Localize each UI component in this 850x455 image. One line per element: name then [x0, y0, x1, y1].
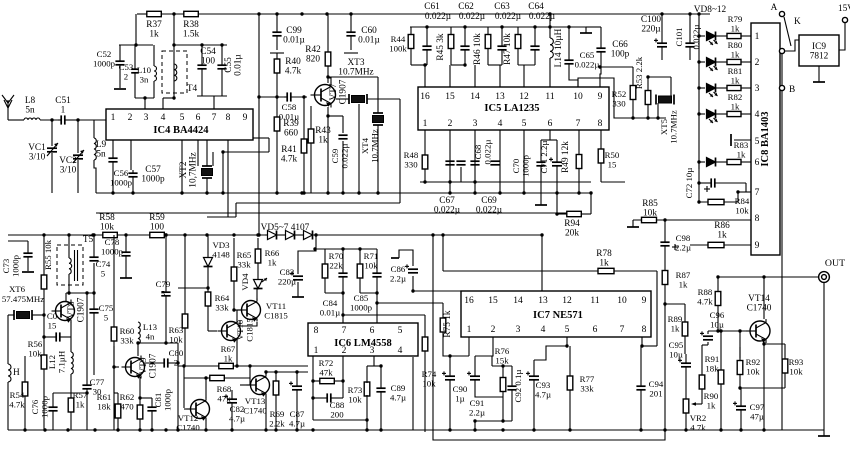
wire long bus	[240, 234, 433, 236]
crystal XT6	[14, 310, 32, 320]
svg-text:L8: L8	[25, 96, 36, 106]
capacitor C66	[596, 27, 605, 66]
resistor R86	[690, 242, 751, 247]
svg-text:4148: 4148	[212, 250, 230, 260]
svg-text:C0: C0	[47, 311, 58, 321]
label R89	[668, 314, 683, 334]
junction	[164, 233, 167, 236]
capacitor C51	[58, 115, 78, 124]
label R68	[217, 384, 232, 404]
junction	[473, 419, 504, 422]
label VC2	[59, 156, 77, 176]
wire bottom jog	[313, 419, 367, 421]
svg-text:5: 5	[565, 325, 570, 335]
svg-text:C79: C79	[156, 279, 171, 289]
svg-text:R67: R67	[221, 344, 236, 354]
switch contact	[779, 48, 784, 53]
svg-text:R83: R83	[734, 140, 749, 150]
resistor R61	[115, 398, 121, 424]
feedback loop wire	[433, 235, 665, 440]
junction	[639, 428, 642, 431]
svg-text:6: 6	[548, 119, 553, 129]
label R40	[285, 57, 302, 77]
capacitor C99	[272, 14, 281, 50]
svg-text:1k: 1k	[268, 258, 277, 268]
svg-text:6: 6	[196, 113, 201, 123]
label R69	[269, 409, 285, 429]
junction	[257, 233, 260, 236]
capacitor C79	[161, 235, 170, 343]
IC8 pin 8	[755, 214, 760, 224]
svg-text:4.7k: 4.7k	[9, 400, 25, 410]
svg-text:OUT: OUT	[825, 258, 845, 269]
svg-text:6: 6	[593, 325, 598, 335]
junction	[67, 291, 95, 294]
wire vt8 e	[70, 322, 72, 337]
label C72	[684, 168, 694, 199]
svg-text:10.7MHz: 10.7MHz	[669, 110, 679, 144]
svg-text:C63: C63	[494, 2, 510, 12]
wire bottom bus right	[700, 429, 824, 431]
junction	[540, 233, 543, 236]
label R85	[642, 199, 658, 219]
wire	[7, 382, 9, 430]
wire	[699, 87, 705, 89]
wire to pin7	[342, 293, 344, 323]
transformer T4 dashed box	[162, 51, 187, 93]
electrolytic C83	[290, 271, 303, 279]
wire	[451, 64, 465, 66]
svg-text:XT2: XT2	[179, 161, 189, 178]
junction	[598, 65, 601, 68]
switch lever K	[784, 17, 801, 46]
wire pin6 down	[549, 130, 551, 140]
svg-text:C56: C56	[114, 168, 129, 178]
ground IC9	[813, 76, 825, 82]
wire	[460, 167, 462, 182]
svg-text:C101: C101	[674, 27, 684, 46]
label R45	[436, 33, 446, 60]
junction	[264, 370, 298, 373]
wire	[327, 14, 329, 35]
wire	[502, 366, 504, 372]
electrolytic C72	[699, 178, 746, 187]
svg-text:C54: C54	[200, 47, 216, 57]
svg-text:7: 7	[576, 119, 581, 129]
junction	[379, 364, 382, 367]
svg-text:470: 470	[120, 402, 134, 412]
svg-text:R90: R90	[704, 391, 719, 401]
label L9	[96, 140, 107, 160]
svg-text:R50: R50	[605, 150, 620, 160]
label C61b	[425, 12, 452, 22]
svg-text:33k: 33k	[120, 336, 134, 346]
svg-text:5: 5	[522, 119, 527, 129]
resistor R41	[301, 130, 307, 162]
junction	[501, 364, 504, 367]
svg-text:C55: C55	[224, 57, 234, 73]
wire long y291	[413, 290, 461, 292]
svg-text:R66: R66	[265, 248, 280, 258]
label IC5 LA1235	[484, 103, 539, 114]
svg-text:R61: R61	[97, 392, 112, 402]
wire	[707, 331, 709, 334]
label R63	[169, 325, 184, 345]
junction	[67, 233, 70, 236]
svg-text:1: 1	[111, 113, 116, 123]
svg-text:1000p: 1000p	[110, 178, 133, 188]
svg-text:R46 10k: R46 10k	[473, 33, 483, 65]
svg-text:3/10: 3/10	[29, 153, 46, 163]
svg-text:L14 10µH: L14 10µH	[554, 28, 564, 67]
label R72	[319, 358, 334, 378]
capacitor C67	[445, 161, 454, 165]
svg-text:1000p: 1000p	[521, 154, 531, 177]
wire out down	[823, 283, 825, 430]
wire	[184, 235, 186, 308]
wire bottom bus	[8, 429, 700, 431]
wire r87 col down	[664, 304, 666, 430]
wire	[310, 152, 312, 193]
junction	[311, 379, 344, 382]
potentiometer VR2	[683, 399, 702, 413]
resistor R72	[320, 378, 335, 383]
wire	[685, 372, 687, 399]
svg-text:C69: C69	[481, 196, 497, 206]
wire pair2 bottom	[360, 292, 377, 294]
junction	[302, 191, 305, 194]
wire	[410, 56, 412, 65]
label IC9	[810, 42, 829, 62]
wire r75 down	[443, 334, 469, 356]
label R90	[704, 391, 719, 411]
junction	[423, 63, 466, 66]
label R62	[120, 392, 135, 412]
junction	[697, 60, 700, 63]
label VT10	[235, 318, 255, 342]
svg-text:0.022µ: 0.022µ	[434, 206, 461, 216]
svg-text:R68: R68	[217, 384, 232, 394]
wire	[258, 14, 260, 97]
svg-text:5n: 5n	[96, 150, 106, 160]
capacitor C65	[564, 27, 573, 75]
svg-text:33k: 33k	[215, 303, 229, 313]
svg-text:1k: 1k	[737, 150, 746, 160]
junction	[326, 75, 329, 78]
svg-text:C60: C60	[361, 26, 377, 36]
label C98	[675, 233, 691, 253]
svg-text:1: 1	[314, 346, 319, 356]
svg-text:C1907: C1907	[77, 297, 87, 322]
IC8 pin 7	[755, 188, 760, 198]
resistor R88	[715, 277, 721, 320]
wire VC2 bottom	[77, 160, 79, 193]
IC8 pin 5	[755, 137, 760, 147]
junction	[221, 191, 224, 194]
wire pair1 bottom	[325, 292, 343, 294]
wire to c93	[534, 346, 567, 360]
resistor R63	[182, 308, 188, 334]
wire	[70, 424, 72, 430]
svg-text:9: 9	[642, 296, 647, 306]
resistor R43	[308, 120, 314, 152]
svg-text:47k: 47k	[319, 368, 333, 378]
svg-text:100p: 100p	[611, 50, 630, 60]
wire pin4 col	[412, 357, 414, 430]
svg-text:L13: L13	[143, 322, 158, 332]
wire	[424, 65, 426, 87]
C73 end bar	[22, 271, 34, 273]
wire pin1 col	[312, 356, 314, 420]
svg-text:1: 1	[467, 325, 472, 335]
wire	[716, 61, 727, 63]
svg-text:H: H	[13, 368, 20, 378]
label C55	[224, 54, 244, 76]
electrolytic C93	[526, 360, 539, 430]
svg-text:22k: 22k	[329, 261, 343, 271]
resistor R71	[357, 249, 363, 293]
wire	[303, 97, 305, 130]
svg-text:C86: C86	[391, 264, 406, 274]
wire	[738, 191, 751, 193]
svg-text:C67: C67	[439, 196, 455, 206]
wire c83 top	[298, 235, 316, 274]
wire branch	[665, 303, 685, 305]
junction	[379, 428, 382, 431]
label R92	[746, 357, 761, 377]
label C0	[47, 311, 58, 331]
inductor T5 coil	[69, 258, 72, 274]
svg-text:C58: C58	[282, 102, 297, 112]
svg-text:13: 13	[538, 296, 548, 306]
resistor R47	[515, 27, 521, 56]
ground C83	[292, 296, 304, 298]
svg-text:C62: C62	[458, 2, 474, 12]
junction	[182, 364, 185, 367]
label C90	[453, 384, 468, 404]
svg-text:C98: C98	[676, 233, 691, 243]
svg-text:C1907: C1907	[339, 79, 349, 104]
inductor L12	[71, 352, 73, 374]
wire	[716, 35, 727, 37]
svg-text:11: 11	[545, 92, 554, 102]
label R79	[728, 14, 743, 34]
capacitor C0	[44, 332, 71, 341]
capacitor C61	[422, 27, 431, 65]
junction	[341, 291, 344, 294]
wire	[569, 420, 571, 430]
svg-text:R81: R81	[728, 66, 743, 76]
resistor R57	[68, 386, 74, 424]
wire VC2 top	[77, 120, 79, 153]
antenna W1	[2, 95, 14, 120]
label XT2	[179, 152, 199, 187]
junction	[365, 418, 368, 421]
wire2	[474, 65, 476, 87]
svg-text:1k: 1k	[731, 102, 740, 112]
svg-text:R57: R57	[73, 390, 88, 400]
svg-text:2: 2	[755, 58, 760, 68]
label C95	[669, 340, 684, 360]
transformer T5 dashed box	[57, 245, 83, 285]
wire L9 bottom	[94, 160, 96, 193]
resistor R60	[111, 322, 117, 346]
wire	[139, 424, 141, 430]
diode VD7	[304, 231, 313, 240]
svg-text:5n: 5n	[25, 106, 35, 116]
wire r78 riser	[442, 235, 444, 271]
wire pin5 down	[181, 140, 183, 193]
wire to IC9	[785, 40, 799, 51]
wire pin4 down	[499, 130, 501, 193]
svg-text:R41: R41	[281, 145, 297, 155]
svg-text:10k: 10k	[364, 261, 378, 271]
wire vt10 c up	[236, 310, 238, 320]
resistor R58	[103, 232, 118, 237]
capacitor C81	[147, 398, 156, 430]
svg-text:10: 10	[573, 92, 583, 102]
wire pin1 down	[112, 140, 114, 157]
label R91	[705, 354, 720, 374]
junction	[257, 95, 278, 98]
svg-text:100k: 100k	[389, 44, 407, 54]
wire vt8 c	[65, 293, 67, 301]
svg-text:C84: C84	[323, 298, 338, 308]
svg-text:16: 16	[464, 296, 474, 306]
inductor L10	[154, 66, 157, 81]
svg-text:4.7µ: 4.7µ	[535, 390, 551, 400]
terminal B	[779, 85, 795, 95]
capacitor C75	[89, 293, 98, 325]
resistor R54	[22, 376, 28, 402]
electrolytic C91	[467, 356, 480, 393]
junction	[257, 12, 551, 15]
svg-text:VT11: VT11	[266, 301, 286, 311]
wire xt5 right up	[670, 77, 672, 96]
wire to pin7	[746, 183, 751, 192]
svg-text:R86: R86	[714, 221, 730, 231]
label C79	[156, 279, 171, 299]
label C73	[1, 254, 21, 277]
IC5 top pin numbers	[420, 92, 602, 102]
label R93	[789, 357, 804, 377]
svg-text:4.7k: 4.7k	[697, 297, 713, 307]
wire	[424, 176, 426, 182]
svg-text:T5: T5	[83, 235, 94, 245]
label C63b	[495, 12, 522, 22]
junction	[232, 308, 235, 311]
svg-text:IC9: IC9	[812, 42, 826, 52]
wire top right	[550, 13, 710, 15]
wire r94 left up	[556, 193, 558, 214]
svg-text:5: 5	[101, 269, 106, 279]
svg-text:VT9: VT9	[139, 357, 149, 374]
wire c76 top	[53, 392, 87, 394]
wire	[135, 14, 137, 45]
label C59	[330, 144, 350, 169]
LED VD8	[707, 32, 718, 46]
label R58	[99, 213, 115, 233]
wire	[184, 408, 190, 410]
wire	[137, 13, 147, 15]
svg-text:R38: R38	[183, 20, 199, 30]
wire long y303	[377, 302, 443, 304]
capacitor C58	[284, 92, 307, 101]
svg-text:10k: 10k	[169, 335, 183, 345]
IC8 BA1403 box	[751, 23, 780, 255]
IC8 pin 4	[755, 110, 760, 120]
wire	[161, 13, 184, 15]
svg-text:IC6 LM4558: IC6 LM4558	[334, 338, 391, 349]
label C93	[535, 380, 551, 400]
label C64b	[529, 12, 556, 22]
label H	[13, 368, 20, 378]
LED VD10	[707, 84, 718, 98]
svg-text:0.022µ: 0.022µ	[575, 60, 600, 70]
wire	[716, 113, 727, 115]
svg-text:10,7MHz: 10,7MHz	[189, 152, 199, 187]
resistor R49	[576, 130, 582, 193]
svg-text:C1740: C1740	[243, 406, 267, 416]
wire L9 top	[93, 120, 95, 138]
wire right loop c	[223, 151, 269, 153]
svg-text:1000p: 1000p	[93, 59, 116, 69]
label C91	[469, 398, 485, 418]
inductor L8	[24, 118, 40, 120]
resistor R79	[727, 33, 741, 38]
resistor R59	[150, 232, 165, 237]
svg-text:C71 2.2µ: C71 2.2µ	[539, 141, 549, 174]
wire	[137, 344, 139, 356]
wire	[707, 342, 709, 345]
label R73	[348, 385, 363, 405]
svg-text:33k: 33k	[237, 260, 251, 270]
svg-text:2.2µ: 2.2µ	[469, 408, 485, 418]
svg-text:10k: 10k	[735, 206, 749, 216]
svg-text:15V: 15V	[838, 4, 850, 14]
junction	[631, 116, 659, 119]
svg-text:C100: C100	[641, 15, 661, 25]
wire	[648, 76, 671, 78]
resistor R91	[699, 360, 705, 404]
ground C86	[391, 250, 413, 266]
svg-text:10µ: 10µ	[669, 350, 683, 360]
junction	[341, 313, 344, 316]
label C77	[90, 377, 105, 397]
label VT11	[264, 301, 288, 321]
svg-text:C72 10µ: C72 10µ	[684, 168, 694, 199]
svg-text:220µ: 220µ	[278, 277, 296, 287]
svg-text:C85: C85	[354, 293, 369, 303]
junction	[738, 329, 741, 332]
label R46	[473, 33, 483, 65]
resistor R68	[210, 375, 225, 380]
svg-text:R85: R85	[642, 199, 658, 209]
C72 plus sign	[704, 186, 710, 192]
resistor R83sym	[727, 159, 741, 164]
resistor R81	[727, 85, 741, 90]
capacitor C78	[121, 235, 130, 272]
svg-text:IC5 LA1235: IC5 LA1235	[484, 103, 539, 114]
diode VD5	[268, 231, 277, 240]
svg-text:1k: 1k	[224, 354, 233, 364]
wire	[310, 106, 312, 120]
capacitor C70	[536, 140, 545, 205]
svg-text:R39: R39	[283, 119, 299, 129]
wire long bus 213	[96, 212, 567, 214]
svg-text:4.7k: 4.7k	[285, 67, 302, 77]
svg-text:1k: 1k	[731, 76, 740, 86]
